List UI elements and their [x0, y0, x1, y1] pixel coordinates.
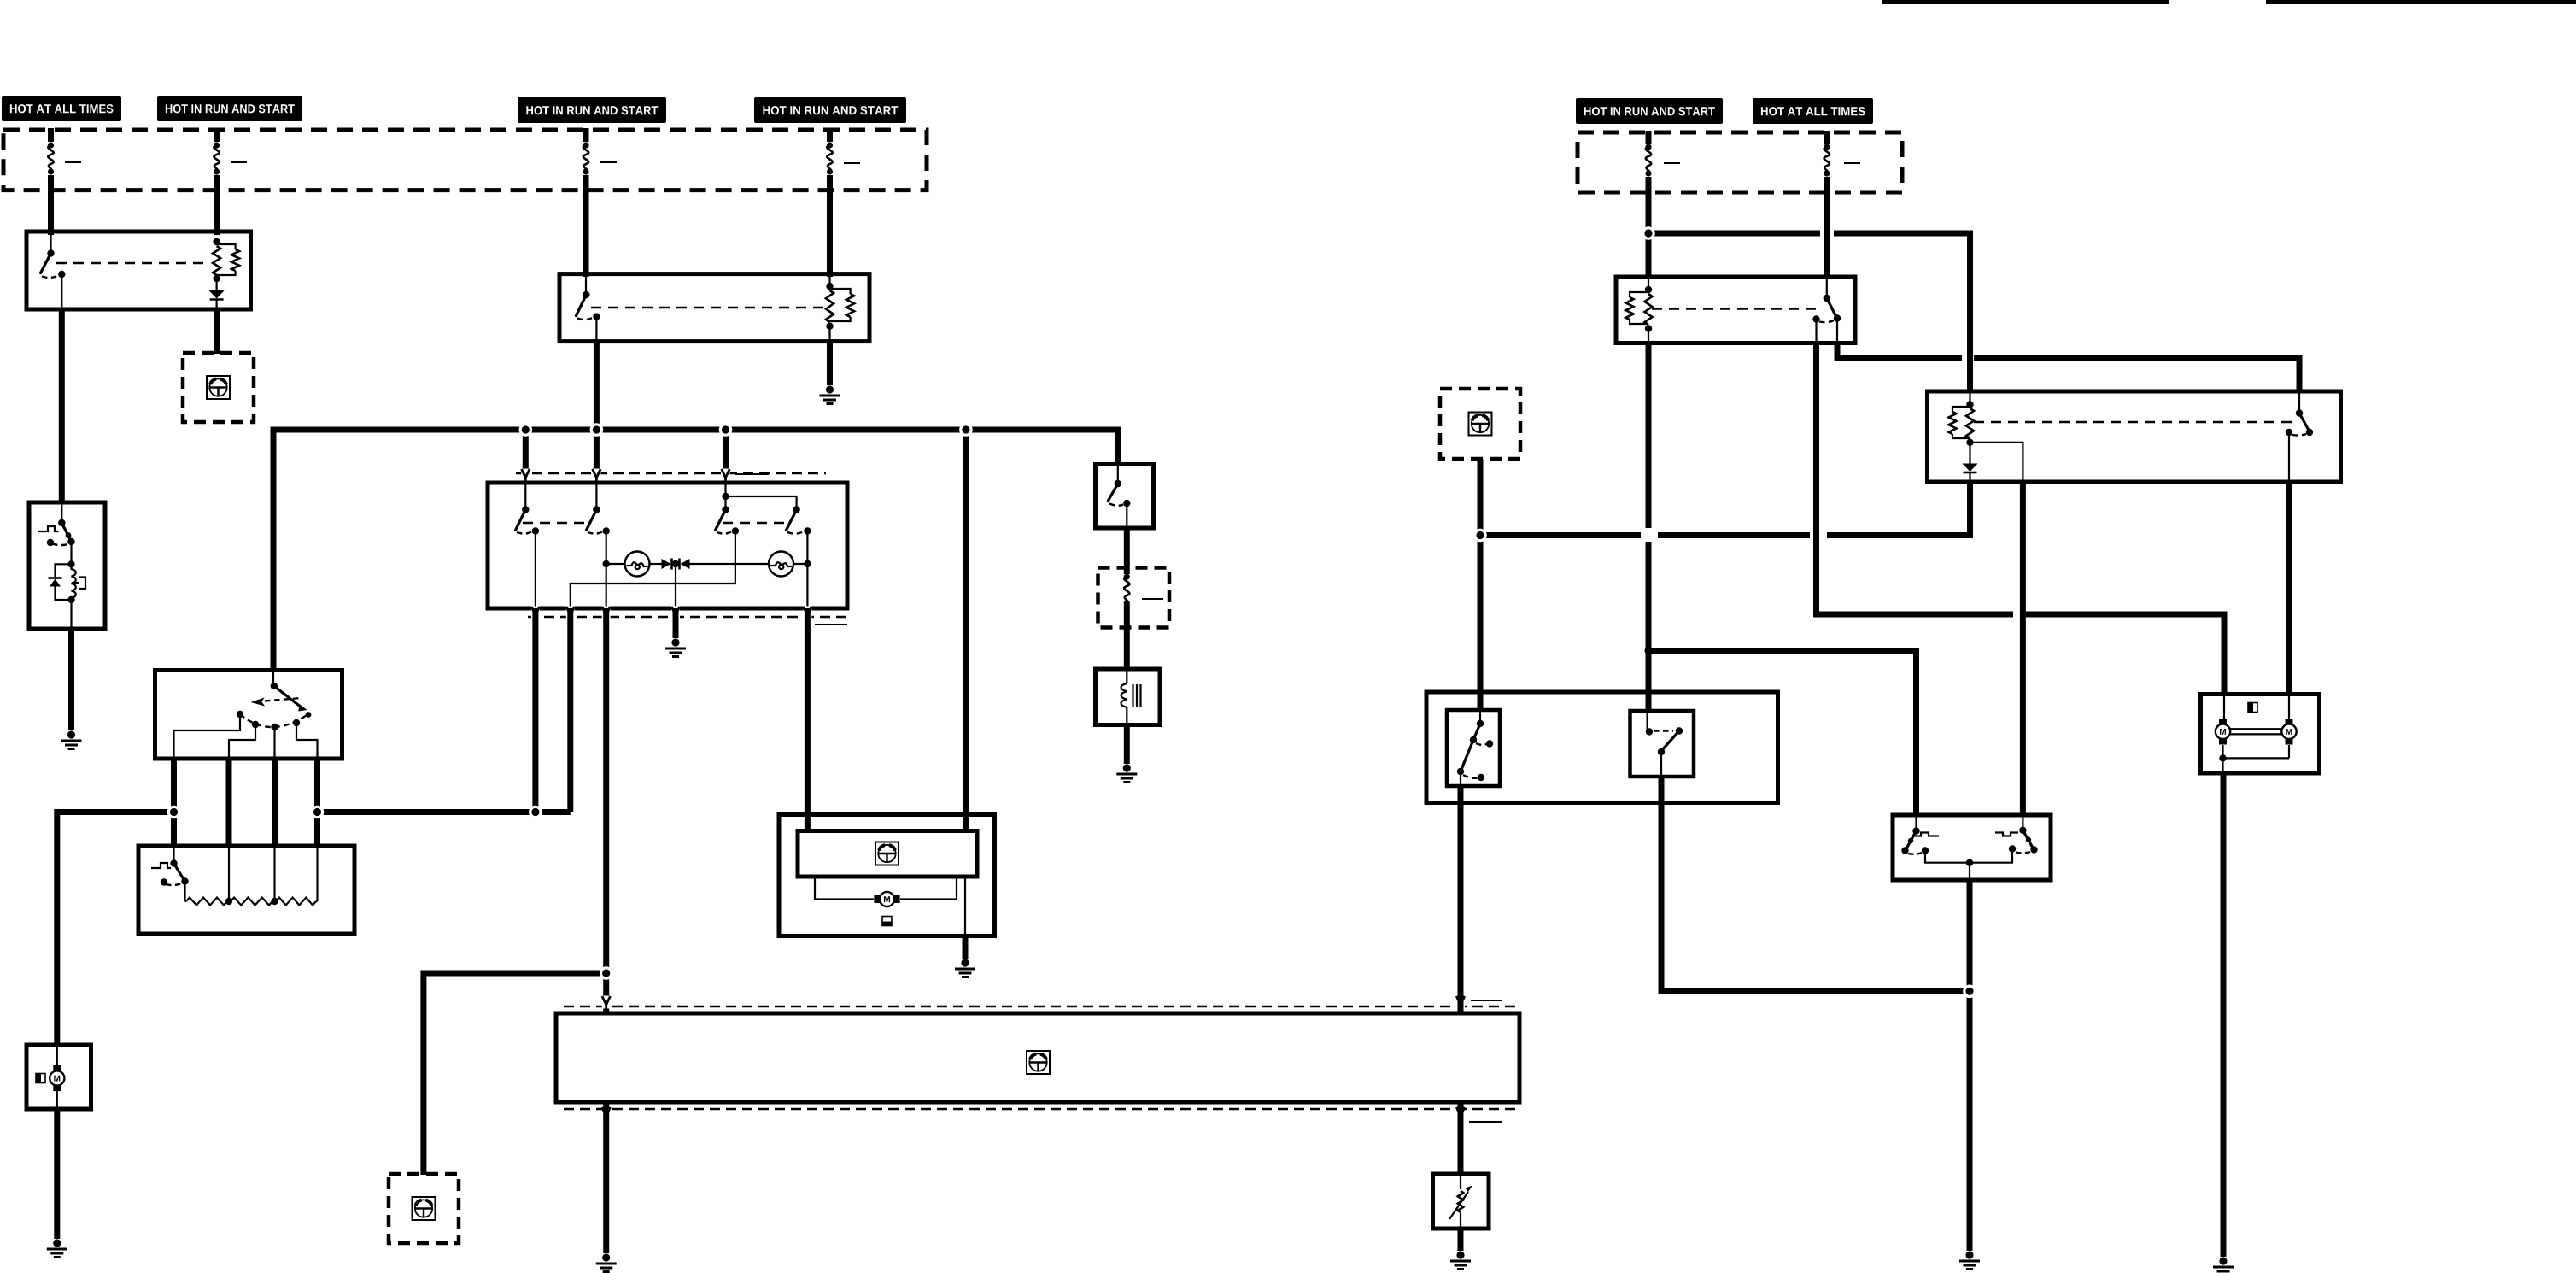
wire relay K1 coil to connector C1 [214, 309, 220, 354]
diode D1 [662, 559, 672, 570]
washer pump motor [50, 1047, 64, 1107]
junction pulse/rear switch [1963, 985, 1976, 999]
wire switch out1 to bus2 [532, 608, 538, 810]
program switch box [155, 671, 342, 760]
timer snubber network [49, 542, 86, 627]
wire relay K3 to relay K4 switch [1837, 343, 2299, 393]
junction B2/switch out1 [529, 806, 542, 819]
pin control unit out R [1456, 1107, 1465, 1121]
ground G10 [1116, 764, 1137, 782]
label HOT AT ALL TIMES (left) [2, 96, 121, 121]
wiper switch SW4 [787, 506, 811, 607]
junction bus/pin1 [519, 423, 533, 437]
wire switch out3 to control unit [603, 608, 609, 1015]
wiper motor ground lead [964, 877, 966, 935]
relay K1 switch [41, 233, 66, 308]
pulse switch L [1901, 817, 1968, 863]
ground G1 [61, 730, 82, 748]
fuse F2 value label [231, 161, 247, 163]
connector C2 steering column icon [413, 1197, 436, 1220]
wire relay K2 coil to ground [827, 342, 833, 385]
relay K3 coil [1626, 279, 1653, 342]
wiper switch SW2 [587, 484, 610, 607]
wire relay K4 diode to junction [1480, 482, 1970, 536]
wire F6 to relay K3 switch [1824, 193, 1830, 279]
junction bus/park feed [959, 423, 973, 437]
junction bus/pin3 [719, 423, 733, 437]
rear wiper switch R contacts [1646, 713, 1683, 775]
headlamp wiper motors box [2201, 695, 2320, 774]
rear wiper switch sub-box L [1447, 710, 1500, 786]
program switch contacts [174, 711, 318, 757]
pulse switch common node [1966, 859, 1973, 879]
rear wiper switch L contacts [1457, 712, 1493, 784]
control unit pin label top [1471, 1000, 1502, 1001]
wiper switch SW1 [516, 484, 540, 607]
washer pump box [26, 1045, 91, 1109]
junction B2/out D [311, 806, 325, 819]
diode D2 [680, 559, 690, 570]
wire bus to wiper switch pin 1 [523, 430, 529, 484]
relay K2 box [559, 274, 869, 342]
wire program switch out C [272, 759, 278, 848]
wire bus to wiper motor (park feed) [963, 430, 969, 832]
relay K3 coil link (dashed) [1652, 308, 1820, 309]
fuse F5 value label [1664, 162, 1680, 164]
wiper switch SW3 feed [722, 484, 796, 510]
fuse box right (dashed) [1578, 132, 1902, 192]
wire relay K3 coil out [1646, 343, 1652, 712]
pin out 1 [531, 607, 540, 620]
wire relay K4 coil branch to pulse switch R [2020, 482, 2026, 817]
wire switch out2 to bus2 [567, 608, 573, 812]
relay K2 coil [826, 275, 854, 340]
wiper switch gang link 1 (dashed) [523, 522, 588, 524]
wire junction to pulse switch L [1648, 651, 1917, 818]
pin out 4 [803, 607, 811, 620]
pin out 3 [602, 607, 611, 620]
relay K4 switch [2286, 393, 2313, 480]
wire relay K1 contact to timer unit [59, 309, 65, 504]
relay K4 diode [1963, 443, 1978, 480]
inline fuse box (dashed) [1098, 568, 1170, 628]
relay K1 coil [213, 238, 239, 282]
connector C2 (dashed) [389, 1174, 459, 1243]
header bar 2 [2266, 0, 2576, 4]
wire pulse box to ground [1967, 880, 1973, 1251]
wire program switch out D [314, 759, 320, 848]
wire rear switch L out to control unit [1458, 784, 1464, 1015]
solenoid coil [1121, 671, 1141, 723]
fuse F5 [1645, 131, 1651, 193]
program switch direction arrow (dashed) [251, 698, 302, 707]
wiper motor pump icon [882, 917, 892, 926]
relay K3 box [1616, 277, 1855, 343]
relay K3 switch [1812, 279, 1841, 342]
wire bus to wiper switch pin 3 [723, 430, 729, 484]
relay K2 switch [577, 275, 600, 340]
relay K4 box [1928, 391, 2341, 482]
junction B2/out A [167, 806, 181, 819]
ground G2 [820, 385, 840, 403]
wash switch box [1096, 465, 1154, 529]
wiper motor brand icon [875, 842, 899, 865]
rear wiper switch sub-box R [1630, 711, 1695, 777]
control unit brand icon [1027, 1051, 1050, 1074]
pin control unit out L [602, 1107, 611, 1121]
ground G4 [47, 1239, 67, 1257]
connector C3 steering column icon [1469, 413, 1492, 436]
wash switch [1109, 466, 1131, 526]
fuse box left (dashed) [3, 130, 927, 191]
connector row label [735, 473, 769, 475]
pin out 2 [566, 607, 575, 620]
resistor R2 [225, 848, 275, 906]
wiper switch box [488, 483, 847, 608]
lamp L2 (illumination) [688, 552, 811, 577]
control unit box [556, 1013, 1519, 1102]
wire solenoid to ground [1124, 725, 1130, 765]
wire control unit to sensor [1458, 1102, 1464, 1176]
connector row above wiper switch (dashed) [516, 472, 826, 474]
inline fuse [1124, 573, 1130, 629]
pin wiper switch 1 [521, 469, 530, 483]
relay K1 diode [209, 279, 225, 308]
pulse switch R [1970, 817, 2038, 863]
resistor pack switch [151, 848, 189, 901]
wire relay K3 contact to headlamp wiper motors [1817, 343, 2225, 695]
fuse F2 [214, 128, 220, 191]
wiper switch SW3 [571, 506, 739, 607]
control unit connector row bottom (dashed) [564, 1108, 1519, 1110]
fuse F6 [1824, 131, 1830, 193]
wire control unit to ground [603, 1102, 609, 1253]
ground G6 [596, 1253, 617, 1271]
headlamp motors linkage [2231, 729, 2282, 734]
label HOT IN RUN AND START (right) [1576, 98, 1723, 124]
header bar 1 [1882, 0, 2169, 4]
program switch contact arc (dashed) [240, 714, 307, 727]
pin ground [671, 607, 680, 620]
wire program switch out A [171, 759, 177, 848]
label HOT IN RUN AND START (F2) [157, 96, 302, 121]
rear wiper switch outer box [1426, 692, 1778, 803]
lamp L1 (illumination) [603, 552, 664, 577]
wiper motor M1 [815, 877, 957, 906]
resistor R1 [186, 848, 229, 906]
fuse F4 [827, 128, 833, 191]
relay K1 box [26, 232, 251, 309]
ground G8 [1959, 1251, 1980, 1269]
wire inline fuse to solenoid [1124, 627, 1130, 671]
label HOT AT ALL TIMES (right) [1753, 98, 1873, 124]
fuse F1 [48, 128, 54, 191]
relay K2 coil link (dashed) [591, 307, 823, 308]
control unit pin label bottom [1469, 1121, 1502, 1123]
intermittent timer unit box [29, 502, 105, 629]
junction F5 feed [1646, 193, 1652, 279]
wire F5 junction to relay K4 coil [1648, 233, 1970, 393]
fuse F3 value label [600, 161, 617, 163]
wiper motor control box [798, 831, 977, 877]
wire relay K4 contact to headlamp wiper motors [2286, 482, 2292, 695]
fuse F6 value label [1844, 162, 1860, 164]
relay K4 coil [1949, 393, 1975, 446]
junction C3/relay K4 [1473, 529, 1487, 543]
ground G5 [955, 959, 975, 977]
pin control unit in L [602, 996, 611, 1010]
relay K4 coil branch [1970, 443, 2023, 480]
connector label below switch [815, 624, 847, 625]
wire timer unit to ground [68, 629, 74, 730]
wire fuse F3 to relay K2 [583, 190, 589, 277]
fuse F4 value label [844, 162, 860, 164]
washer pump icon [36, 1074, 45, 1083]
node lamp center [672, 560, 679, 567]
label HOT IN RUN AND START (F3) [518, 97, 666, 123]
fuse F3 [583, 128, 588, 191]
sensor box [1433, 1174, 1490, 1229]
control unit connector row top (dashed) [564, 1006, 1519, 1007]
wiper switch gang link 2 (dashed) [723, 522, 788, 524]
bus wire B1 [273, 430, 1118, 672]
wire headlamp motors to ground [2221, 773, 2227, 1257]
variable resistor sensor [1449, 1176, 1472, 1227]
pin wiper switch 2 [592, 469, 600, 483]
headlamp motors common return [2219, 745, 2289, 771]
resistor R3 [185, 848, 318, 906]
junction relay K3 coil / washer branch [1644, 647, 1652, 654]
relay K4 coil link (dashed) [1974, 421, 2292, 423]
connector row below wiper switch (dashed) [528, 616, 848, 618]
bus wire B2 right [318, 809, 571, 815]
wire fuse F1 to relay K1 [48, 190, 54, 235]
timer switch [38, 504, 75, 546]
bus wire B2 left [57, 812, 174, 1047]
connector C3 (dashed) [1440, 389, 1520, 459]
wiper motor assembly box [779, 815, 995, 936]
wire program switch out B [226, 759, 232, 848]
junction bus/relay K2 [590, 423, 604, 437]
wire fuse F4 to relay K2 coil [827, 190, 833, 277]
wire sensor to ground [1458, 1229, 1464, 1251]
pin wiper switch 3 [722, 469, 730, 483]
fuse F1 value label [65, 161, 81, 163]
wire relay K2 contact to bus [594, 342, 600, 484]
wire to washer connector C2 [424, 973, 606, 1175]
relay K1 coil link (dashed) [56, 262, 209, 264]
wire washer pump to ground [54, 1109, 60, 1239]
wire C3 to rear switch [1478, 459, 1484, 712]
ground G9 [2213, 1257, 2234, 1273]
wire switch ground [673, 608, 679, 638]
wire switch out4 to wiper motor [805, 608, 811, 832]
headlamp wiper motor M2 [2216, 695, 2230, 745]
ground G7 [1450, 1251, 1471, 1269]
headlamp wiper motor M3 [2281, 695, 2296, 745]
wire rear switch R out to pulse box [1661, 777, 1964, 991]
resistor pack box [138, 846, 354, 934]
headlamp motors pump icon [2248, 703, 2257, 713]
pulse switch box [1893, 815, 2051, 880]
solenoid box [1096, 669, 1161, 725]
label HOT IN RUN AND START (F4) [754, 97, 906, 123]
junction washer feed [600, 966, 613, 980]
connector C1 steering column icon [207, 376, 230, 399]
inline fuse label [1142, 598, 1163, 600]
ground G3 [665, 638, 686, 656]
program switch rotor [271, 672, 312, 718]
wire fuse F2 to relay K1 coil [214, 190, 220, 235]
connector C1 (dashed, column switch) [183, 353, 254, 422]
junction F5 [1642, 226, 1655, 240]
wire lamp center to ground pin [675, 564, 676, 607]
wire wiper motor to ground [963, 936, 969, 959]
pin control unit in R [1456, 996, 1465, 1010]
wire wash switch to inline fuse [1124, 528, 1130, 574]
